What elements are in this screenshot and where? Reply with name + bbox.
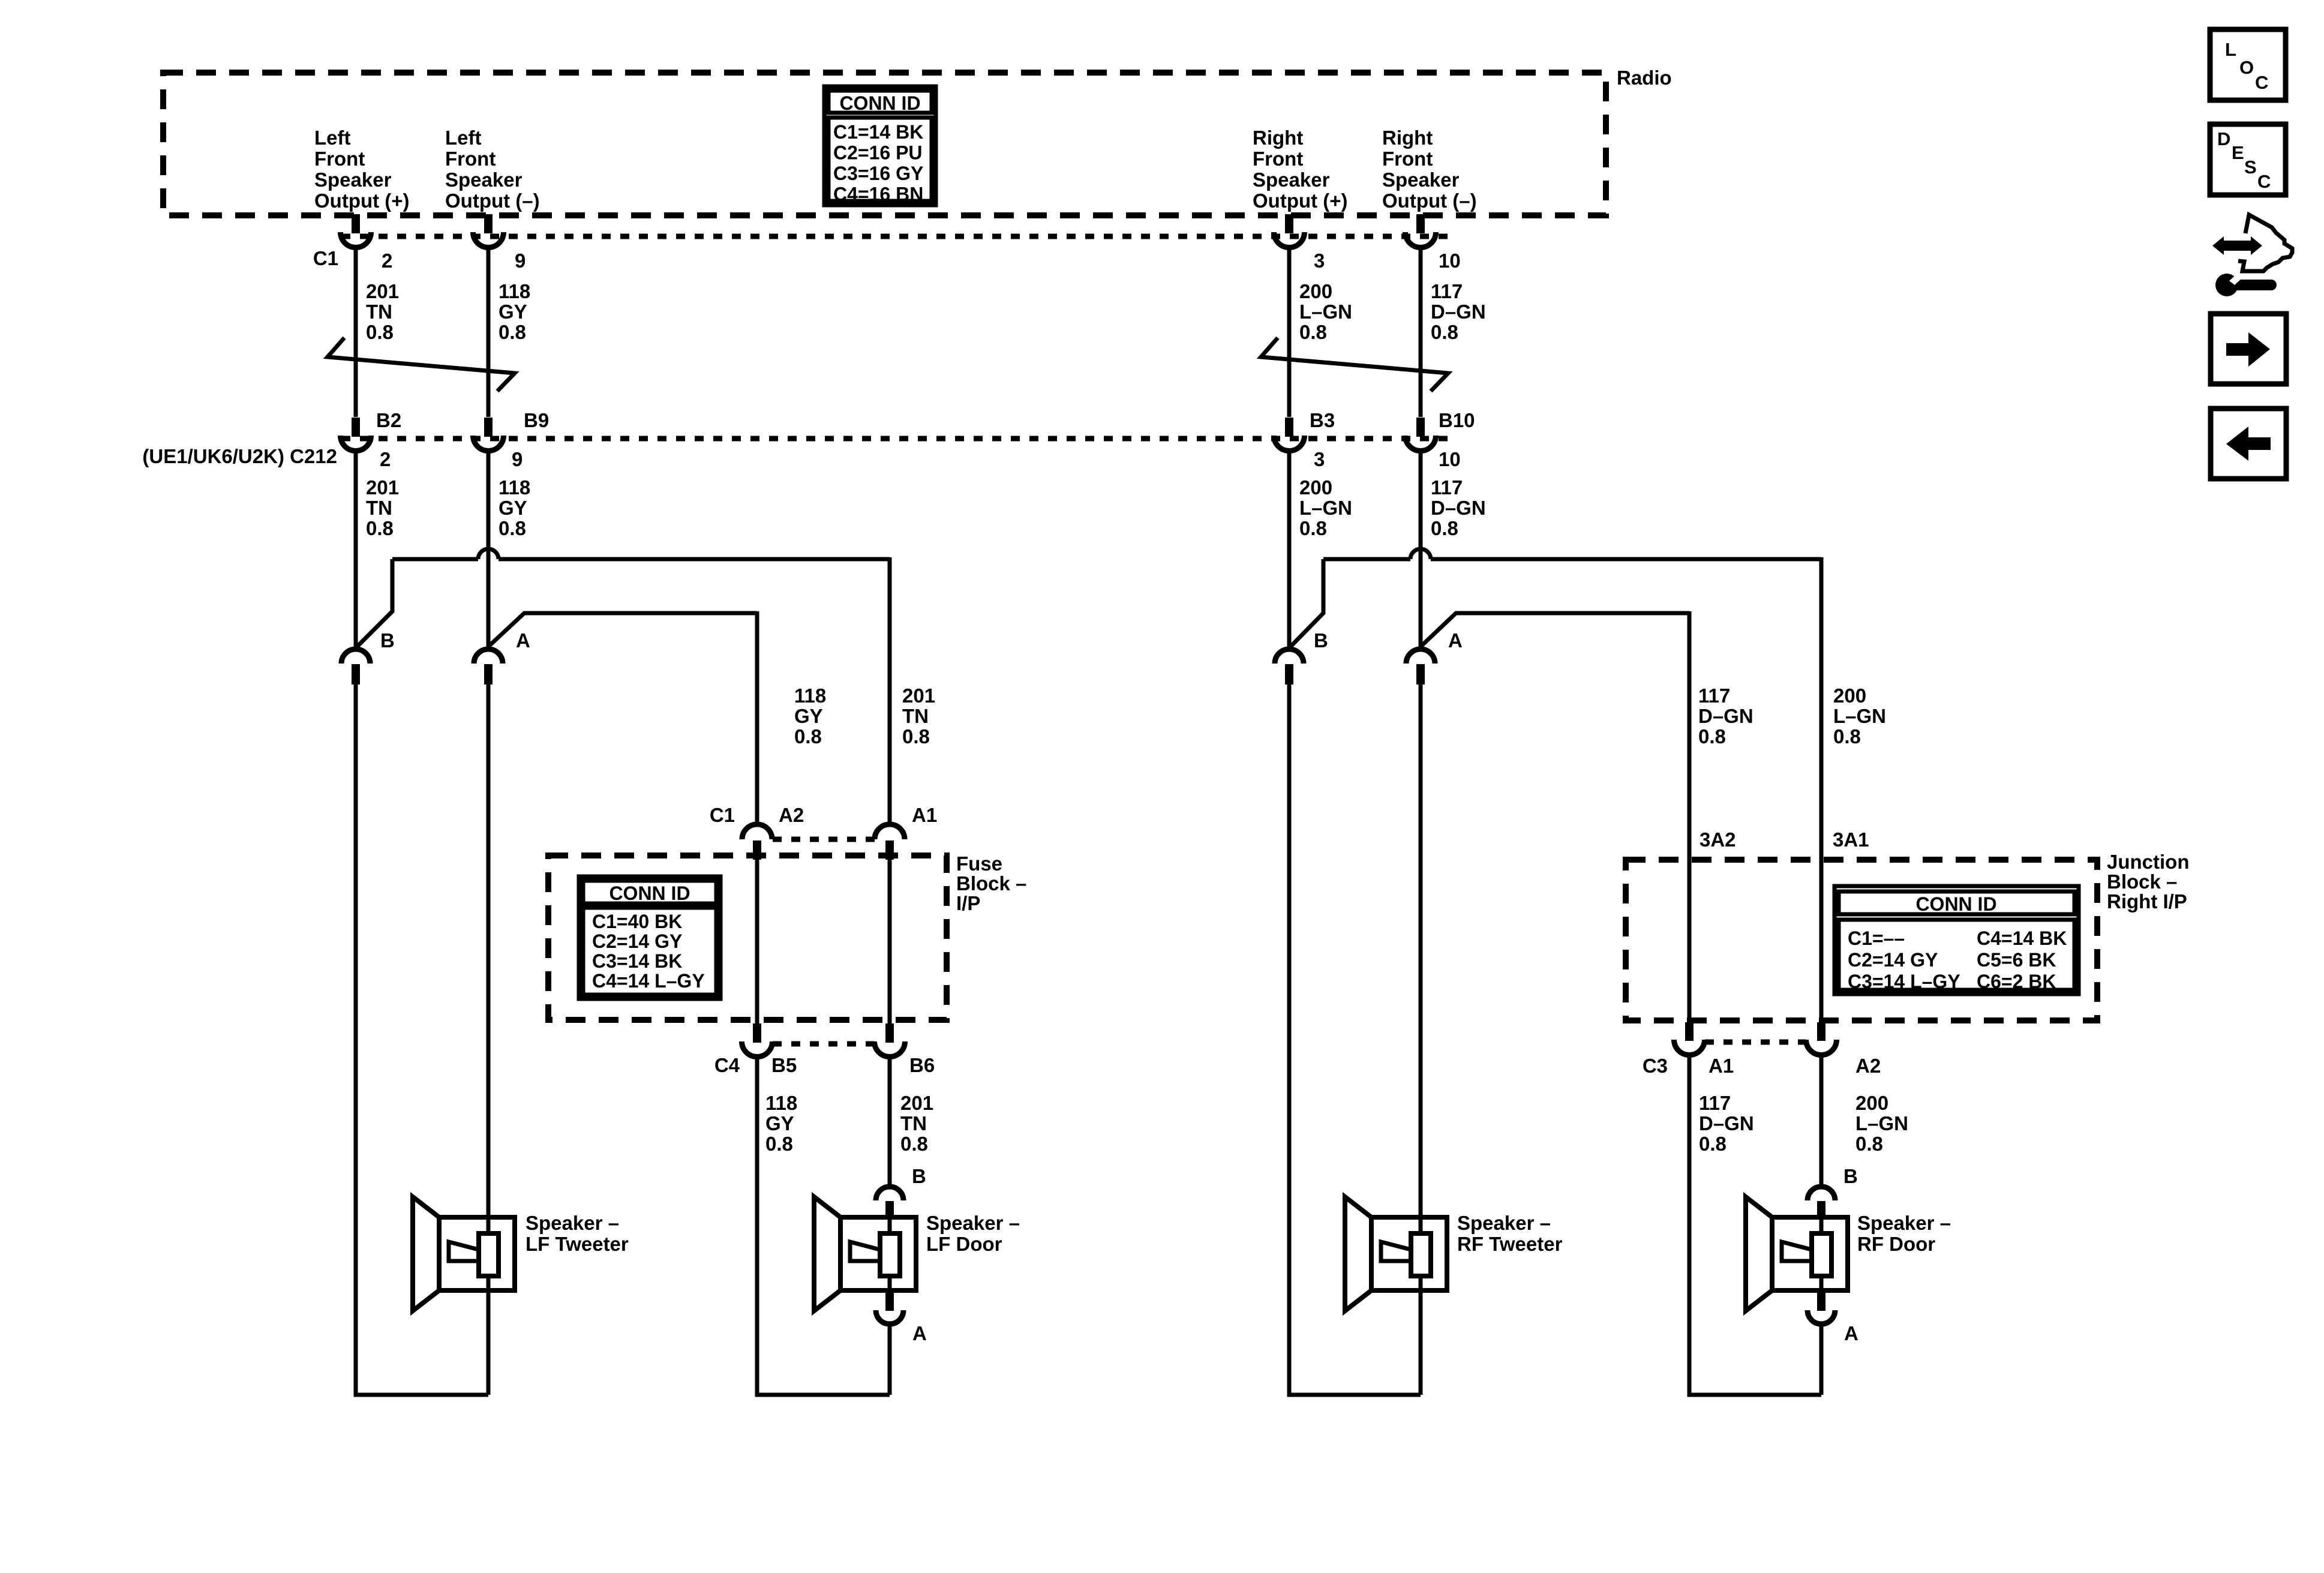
svg-text:Front: Front bbox=[445, 148, 496, 170]
svg-text:Front: Front bbox=[1382, 148, 1433, 170]
svg-text:D–GN: D–GN bbox=[1431, 301, 1486, 323]
svg-text:C1: C1 bbox=[313, 247, 338, 269]
fuse block connector C4/B5 bbox=[742, 1023, 773, 1057]
connector label C3 (junction) bbox=[1643, 1055, 1668, 1077]
svg-text:Right: Right bbox=[1253, 127, 1303, 149]
Junction Block label bbox=[2107, 851, 2190, 912]
Fuse Block - I/P dashed box bbox=[548, 855, 947, 1020]
pin number 10 (radio C1) bbox=[1439, 250, 1461, 272]
svg-text:200: 200 bbox=[1299, 476, 1332, 499]
svg-text:TN: TN bbox=[900, 1112, 927, 1134]
svg-text:Speaker: Speaker bbox=[1253, 169, 1330, 191]
connector line fuse top (dotted) bbox=[773, 837, 875, 842]
svg-text:2: 2 bbox=[382, 250, 392, 272]
Radio pin name: Right Front Speaker Output (+) bbox=[1253, 127, 1348, 212]
terminal label B2 bbox=[376, 409, 401, 431]
svg-text:0.8: 0.8 bbox=[366, 517, 394, 539]
wire label 118 GY 0.8 (to LF door) bbox=[765, 1092, 797, 1155]
svg-text:Speaker –: Speaker – bbox=[526, 1212, 619, 1234]
svg-text:B: B bbox=[912, 1165, 926, 1187]
Junction Block - Right I/P dashed box bbox=[1626, 860, 2097, 1020]
svg-text:Block –: Block – bbox=[956, 872, 1026, 894]
wire label 118 GY 0.8 (branch) bbox=[794, 685, 826, 748]
wire inside fuse block (201 TN) bbox=[888, 860, 892, 1023]
svg-text:0.8: 0.8 bbox=[1833, 725, 1861, 748]
junction block connector C3/A1 bbox=[1674, 1022, 1705, 1055]
wire A2 down to RF door speaker (200 L-GN) bbox=[1819, 1056, 1824, 1185]
svg-text:Speaker –: Speaker – bbox=[926, 1212, 1020, 1234]
svg-text:A: A bbox=[1448, 629, 1463, 652]
wire B branch down to LF tweeter loop (201 TN) bbox=[356, 684, 488, 1395]
harness connector B bbox=[1275, 649, 1304, 685]
wire 118 GY (C212 down) bbox=[487, 452, 491, 647]
svg-text:S: S bbox=[2244, 157, 2257, 178]
svg-text:10: 10 bbox=[1439, 250, 1461, 272]
svg-text:117: 117 bbox=[1431, 476, 1463, 499]
svg-text:C4=14 BK: C4=14 BK bbox=[1977, 927, 2067, 949]
svg-text:L–GN: L–GN bbox=[1299, 497, 1352, 519]
svg-text:0.8: 0.8 bbox=[1431, 321, 1458, 343]
svg-text:A1: A1 bbox=[912, 804, 937, 826]
wire from A to RF door loop bbox=[1819, 1326, 1824, 1395]
svg-text:Radio: Radio bbox=[1617, 67, 1672, 89]
svg-text:C5=6 BK: C5=6 BK bbox=[1977, 949, 2056, 971]
wire label 201 TN 0.8 (to LF door) bbox=[900, 1092, 933, 1155]
svg-text:0.8: 0.8 bbox=[1299, 517, 1327, 539]
svg-text:0.8: 0.8 bbox=[1299, 321, 1327, 343]
wire branch B to junction block 3A1 (200 L-GN) bbox=[1290, 549, 1821, 1022]
harness connector A bbox=[474, 649, 503, 685]
svg-text:C2=16 PU: C2=16 PU bbox=[833, 142, 923, 164]
svg-text:L–GN: L–GN bbox=[1299, 301, 1352, 323]
wire 117 D–GN (radio to C212) bbox=[1419, 248, 1423, 417]
svg-text:D: D bbox=[2217, 128, 2230, 149]
svg-text:0.8: 0.8 bbox=[499, 321, 526, 343]
svg-text:C3=14 L–GY: C3=14 L–GY bbox=[1848, 971, 1960, 992]
svg-text:118: 118 bbox=[499, 476, 530, 499]
terminal label A2 bbox=[779, 804, 804, 826]
svg-text:Fuse: Fuse bbox=[956, 852, 1002, 875]
svg-text:0.8: 0.8 bbox=[1431, 517, 1458, 539]
svg-text:C3=14 BK: C3=14 BK bbox=[592, 950, 682, 972]
wire from A to LF door loop bbox=[888, 1326, 892, 1395]
twisted leads symbol (left pair) bbox=[328, 338, 515, 391]
svg-text:200: 200 bbox=[1833, 685, 1866, 707]
connector label A (RF door) bbox=[1844, 1322, 1858, 1344]
svg-text:RF Door: RF Door bbox=[1857, 1233, 1935, 1255]
svg-text:Left: Left bbox=[445, 127, 482, 149]
svg-text:GY: GY bbox=[499, 497, 527, 519]
connector label (UE1/UK6/U2K) C212 bbox=[142, 445, 337, 467]
svg-text:C6=2 BK: C6=2 BK bbox=[1977, 971, 2056, 992]
wire branch B to fuse block A1 (201 TN) bbox=[357, 549, 890, 823]
connector line C1 (dotted) bbox=[341, 234, 1449, 239]
terminal label B3 bbox=[1310, 409, 1335, 431]
radio connector pin 9 bbox=[473, 214, 504, 248]
svg-text:TN: TN bbox=[902, 705, 929, 727]
speaker label LF Tweeter bbox=[526, 1212, 629, 1255]
Junction Block CONN ID table bbox=[1834, 886, 2079, 994]
connector B at LF door speaker bbox=[876, 1187, 903, 1218]
svg-text:A: A bbox=[516, 629, 530, 652]
Radio pin name: Right Front Speaker Output (-) bbox=[1382, 127, 1477, 212]
wire label 200 L-GN 0.8 (to RF door) bbox=[1855, 1092, 1908, 1155]
svg-text:117: 117 bbox=[1698, 685, 1730, 707]
svg-text:C4=14 L–GY: C4=14 L–GY bbox=[592, 970, 705, 992]
wire label 201 TN 0.8 bbox=[366, 280, 399, 343]
wire label 117 D–GN 0.8 bbox=[1431, 280, 1486, 343]
wire A down through RF tweeter (117 D-GN) bbox=[1419, 684, 1423, 1395]
pin number 2 (radio C1) bbox=[382, 250, 392, 272]
wire label 118 GY 0.8 (below C212) bbox=[499, 476, 530, 539]
svg-text:C1=14 BK: C1=14 BK bbox=[833, 121, 923, 143]
speaker label LF Door bbox=[926, 1212, 1020, 1255]
svg-text:0.8: 0.8 bbox=[1699, 1133, 1727, 1155]
svg-text:B2: B2 bbox=[376, 409, 401, 431]
svg-text:A1: A1 bbox=[1709, 1055, 1734, 1077]
svg-text:118: 118 bbox=[499, 280, 530, 302]
Radio pin name: Left Front Speaker Output (-) bbox=[445, 127, 540, 212]
svg-text:Speaker: Speaker bbox=[445, 169, 523, 191]
connector label A bbox=[516, 629, 530, 652]
wire label 200 L–GN 0.8 (below C212) bbox=[1299, 476, 1352, 539]
wire label 201 TN 0.8 (branch) bbox=[902, 685, 935, 748]
pin number 2 (below C212) bbox=[380, 448, 391, 470]
twisted leads symbol (right pair) bbox=[1261, 338, 1448, 391]
terminal label 3A1 bbox=[1833, 828, 1869, 851]
svg-text:B10: B10 bbox=[1439, 409, 1475, 431]
terminal label A2 (junction) bbox=[1855, 1055, 1881, 1077]
Radio CONN ID table bbox=[824, 86, 936, 205]
speaker RF Door symbol bbox=[1746, 1197, 1848, 1311]
connector label B (RF door) bbox=[1843, 1165, 1858, 1187]
connector label B bbox=[1314, 629, 1328, 652]
svg-text:Speaker –: Speaker – bbox=[1457, 1212, 1551, 1234]
fuse block connector B6 bbox=[875, 1023, 905, 1057]
svg-text:I/P: I/P bbox=[956, 892, 980, 914]
svg-text:Front: Front bbox=[314, 148, 365, 170]
terminal label B5 bbox=[771, 1054, 797, 1076]
wire 200 L–GN (radio to C212) bbox=[1287, 248, 1292, 417]
svg-text:L–GN: L–GN bbox=[1833, 705, 1886, 727]
svg-text:Right I/P: Right I/P bbox=[2107, 890, 2187, 912]
pin number 3 (radio C1) bbox=[1314, 250, 1325, 272]
svg-text:0.8: 0.8 bbox=[1698, 725, 1726, 748]
svg-text:D–GN: D–GN bbox=[1431, 497, 1486, 519]
svg-text:Output (–): Output (–) bbox=[1382, 190, 1477, 212]
pin number 9 (radio C1) bbox=[515, 250, 526, 272]
svg-text:0.8: 0.8 bbox=[765, 1133, 793, 1155]
wire 117 D–GN (C212 down) bbox=[1419, 452, 1423, 647]
connector C212 terminal B3 bbox=[1274, 418, 1305, 451]
svg-text:0.8: 0.8 bbox=[1855, 1133, 1883, 1155]
junction block connector A2 bbox=[1806, 1022, 1837, 1055]
svg-text:3A1: 3A1 bbox=[1833, 828, 1869, 851]
svg-text:TN: TN bbox=[366, 497, 392, 519]
svg-text:9: 9 bbox=[515, 250, 526, 272]
svg-text:Block –: Block – bbox=[2107, 870, 2177, 893]
svg-text:CONN ID: CONN ID bbox=[839, 92, 920, 114]
wire B6 down to LF door speaker (201 TN) bbox=[888, 1058, 892, 1185]
fuse block connector C1/A2 bbox=[742, 824, 772, 860]
wire label 200 L-GN 0.8 (branch) bbox=[1833, 685, 1886, 748]
DESC icon bbox=[2210, 124, 2286, 195]
terminal label B9 bbox=[524, 409, 549, 431]
svg-text:GY: GY bbox=[499, 301, 527, 323]
svg-text:0.8: 0.8 bbox=[900, 1133, 928, 1155]
svg-text:201: 201 bbox=[366, 476, 399, 499]
connector C1 label bbox=[313, 247, 338, 269]
svg-text:Speaker: Speaker bbox=[1382, 169, 1460, 191]
svg-text:A: A bbox=[912, 1322, 927, 1344]
svg-text:0.8: 0.8 bbox=[794, 725, 822, 748]
wire C3/A1 down to RF door loop (117 D-GN) bbox=[1689, 1056, 1821, 1395]
svg-text:0.8: 0.8 bbox=[902, 725, 930, 748]
svg-text:B: B bbox=[380, 629, 395, 652]
svg-text:200: 200 bbox=[1299, 280, 1332, 302]
svg-text:3A2: 3A2 bbox=[1700, 828, 1736, 851]
svg-text:2: 2 bbox=[380, 448, 391, 470]
svg-text:0.8: 0.8 bbox=[499, 517, 526, 539]
svg-text:118: 118 bbox=[765, 1092, 797, 1114]
svg-text:201: 201 bbox=[900, 1092, 933, 1114]
Radio pin name: Left Front Speaker Output (+) bbox=[314, 127, 410, 212]
wire 118 GY (radio to C212) bbox=[487, 248, 491, 417]
connector line junction bottom (dotted) bbox=[1705, 1040, 1806, 1045]
svg-text:GY: GY bbox=[765, 1112, 794, 1134]
backward arrow icon bbox=[2211, 409, 2286, 479]
connector line fuse bottom (dotted) bbox=[773, 1041, 875, 1047]
Radio label bbox=[1617, 67, 1672, 89]
wire label 117 D-GN 0.8 (to RF door) bbox=[1699, 1092, 1754, 1155]
Radio component dashed box bbox=[163, 73, 1606, 215]
svg-text:117: 117 bbox=[1699, 1092, 1731, 1114]
terminal label B10 bbox=[1439, 409, 1475, 431]
svg-text:Output (–): Output (–) bbox=[445, 190, 540, 212]
svg-text:A: A bbox=[1844, 1322, 1858, 1344]
harness connector B bbox=[341, 649, 370, 685]
fuse block connector A1 bbox=[875, 824, 905, 860]
connector label B (LF door) bbox=[912, 1165, 926, 1187]
radio connector pin 2 bbox=[341, 214, 371, 248]
connector A at LF door speaker bbox=[876, 1292, 903, 1324]
svg-text:C1: C1 bbox=[710, 804, 735, 826]
wire label 117 D-GN 0.8 (branch) bbox=[1698, 685, 1753, 748]
svg-text:L: L bbox=[2225, 39, 2236, 60]
svg-text:(UE1/UK6/U2K) C212: (UE1/UK6/U2K) C212 bbox=[142, 445, 337, 467]
terminal label A1 bbox=[912, 804, 937, 826]
terminal label 3A2 bbox=[1700, 828, 1736, 851]
connector label B bbox=[380, 629, 395, 652]
svg-text:L–GN: L–GN bbox=[1855, 1112, 1908, 1134]
speaker label RF Tweeter bbox=[1457, 1212, 1563, 1255]
harness connector A bbox=[1406, 649, 1435, 685]
svg-text:C: C bbox=[2257, 171, 2271, 192]
svg-text:RF Tweeter: RF Tweeter bbox=[1457, 1233, 1563, 1255]
connector C212 terminal B2 bbox=[341, 418, 371, 451]
svg-text:C3=16 GY: C3=16 GY bbox=[833, 163, 923, 184]
LOC icon bbox=[2210, 29, 2286, 100]
wire B branch down to RF tweeter loop (200 L-GN) bbox=[1289, 684, 1421, 1395]
wire 201 TN (radio to C212) bbox=[354, 248, 358, 417]
svg-text:0.8: 0.8 bbox=[366, 321, 394, 343]
svg-text:Front: Front bbox=[1253, 148, 1303, 170]
connector label C1 (fuse) bbox=[710, 804, 735, 826]
svg-text:Output (+): Output (+) bbox=[1253, 190, 1348, 212]
svg-text:D–GN: D–GN bbox=[1699, 1112, 1754, 1134]
connector B at RF door speaker bbox=[1807, 1187, 1835, 1218]
wiring repair icon (arrows and wrench) bbox=[2212, 215, 2292, 296]
svg-text:Output (+): Output (+) bbox=[314, 190, 410, 212]
pin number 3 (below C212) bbox=[1314, 448, 1325, 470]
wire A down through LF tweeter (118 GY) bbox=[487, 684, 491, 1395]
wire branch A to fuse block A2 (118 GY) bbox=[490, 611, 757, 823]
pin number 10 (below C212) bbox=[1439, 448, 1461, 470]
svg-text:C1=40 BK: C1=40 BK bbox=[592, 911, 682, 932]
svg-text:TN: TN bbox=[366, 301, 392, 323]
svg-text:B: B bbox=[1314, 629, 1328, 652]
svg-text:B9: B9 bbox=[524, 409, 549, 431]
svg-text:A2: A2 bbox=[779, 804, 804, 826]
connector label C4 (fuse) bbox=[714, 1054, 740, 1076]
svg-text:C4: C4 bbox=[714, 1054, 740, 1076]
forward arrow icon bbox=[2211, 314, 2286, 384]
wire B5 down to LF door loop (118 GY) bbox=[757, 1058, 890, 1395]
wire branch A to junction block 3A2 (117 D-GN) bbox=[1422, 611, 1689, 1022]
speaker LF Tweeter symbol bbox=[413, 1197, 515, 1311]
svg-text:Left: Left bbox=[314, 127, 351, 149]
wire label 200 L–GN 0.8 bbox=[1299, 280, 1352, 343]
svg-text:LF Door: LF Door bbox=[926, 1233, 1002, 1255]
svg-text:D–GN: D–GN bbox=[1698, 705, 1753, 727]
svg-text:10: 10 bbox=[1439, 448, 1461, 470]
svg-text:O: O bbox=[2239, 57, 2254, 78]
svg-text:CONN ID: CONN ID bbox=[1915, 893, 1996, 915]
svg-text:C2=14 GY: C2=14 GY bbox=[1848, 949, 1938, 971]
svg-text:B5: B5 bbox=[771, 1054, 797, 1076]
svg-text:Speaker –: Speaker – bbox=[1857, 1212, 1951, 1234]
svg-text:Right: Right bbox=[1382, 127, 1433, 149]
svg-text:LF Tweeter: LF Tweeter bbox=[526, 1233, 629, 1255]
wire label 201 TN 0.8 (below C212) bbox=[366, 476, 399, 539]
wire inside fuse block (118 GY) bbox=[755, 860, 759, 1023]
Fuse Block label bbox=[956, 852, 1026, 914]
svg-text:B3: B3 bbox=[1310, 409, 1335, 431]
wire 201 TN (C212 down) bbox=[354, 452, 358, 647]
terminal label B6 bbox=[909, 1054, 935, 1076]
svg-text:C3: C3 bbox=[1643, 1055, 1668, 1077]
svg-text:B6: B6 bbox=[909, 1054, 935, 1076]
svg-text:118: 118 bbox=[794, 685, 826, 707]
wire label 118 GY 0.8 bbox=[499, 280, 530, 343]
pin number 9 (below C212) bbox=[512, 448, 523, 470]
svg-text:3: 3 bbox=[1314, 448, 1325, 470]
svg-text:E: E bbox=[2232, 142, 2244, 163]
svg-text:C: C bbox=[2255, 72, 2268, 93]
svg-text:200: 200 bbox=[1855, 1092, 1888, 1114]
svg-text:C2=14 GY: C2=14 GY bbox=[592, 930, 682, 952]
speaker LF Door symbol bbox=[814, 1197, 916, 1311]
svg-text:3: 3 bbox=[1314, 250, 1325, 272]
svg-text:Speaker: Speaker bbox=[314, 169, 392, 191]
terminal label A1 (junction) bbox=[1709, 1055, 1734, 1077]
connector C212 terminal B10 bbox=[1406, 418, 1436, 451]
svg-text:B: B bbox=[1843, 1165, 1858, 1187]
radio connector pin 10 bbox=[1406, 214, 1436, 248]
svg-text:117: 117 bbox=[1431, 280, 1463, 302]
svg-text:C4=16 BN: C4=16 BN bbox=[833, 184, 923, 205]
svg-text:C1=––: C1=–– bbox=[1848, 927, 1905, 949]
Fuse Block CONN ID table bbox=[579, 876, 720, 999]
wire label 117 D–GN 0.8 (below C212) bbox=[1431, 476, 1486, 539]
in-line connector C212 (dotted) bbox=[341, 436, 1449, 442]
connector C212 terminal B9 bbox=[473, 418, 504, 451]
svg-text:9: 9 bbox=[512, 448, 523, 470]
connector label A bbox=[1448, 629, 1463, 652]
wire 200 L–GN (C212 down) bbox=[1287, 452, 1292, 647]
svg-text:CONN ID: CONN ID bbox=[609, 882, 690, 904]
connector A at RF door speaker bbox=[1807, 1292, 1835, 1324]
speaker RF Tweeter symbol bbox=[1345, 1197, 1447, 1311]
svg-text:Junction: Junction bbox=[2107, 851, 2190, 873]
speaker label RF Door bbox=[1857, 1212, 1951, 1255]
svg-text:201: 201 bbox=[366, 280, 399, 302]
connector label A (LF door) bbox=[912, 1322, 927, 1344]
svg-text:201: 201 bbox=[902, 685, 935, 707]
svg-text:A2: A2 bbox=[1855, 1055, 1881, 1077]
radio connector pin 3 bbox=[1274, 214, 1305, 248]
svg-text:GY: GY bbox=[794, 705, 823, 727]
